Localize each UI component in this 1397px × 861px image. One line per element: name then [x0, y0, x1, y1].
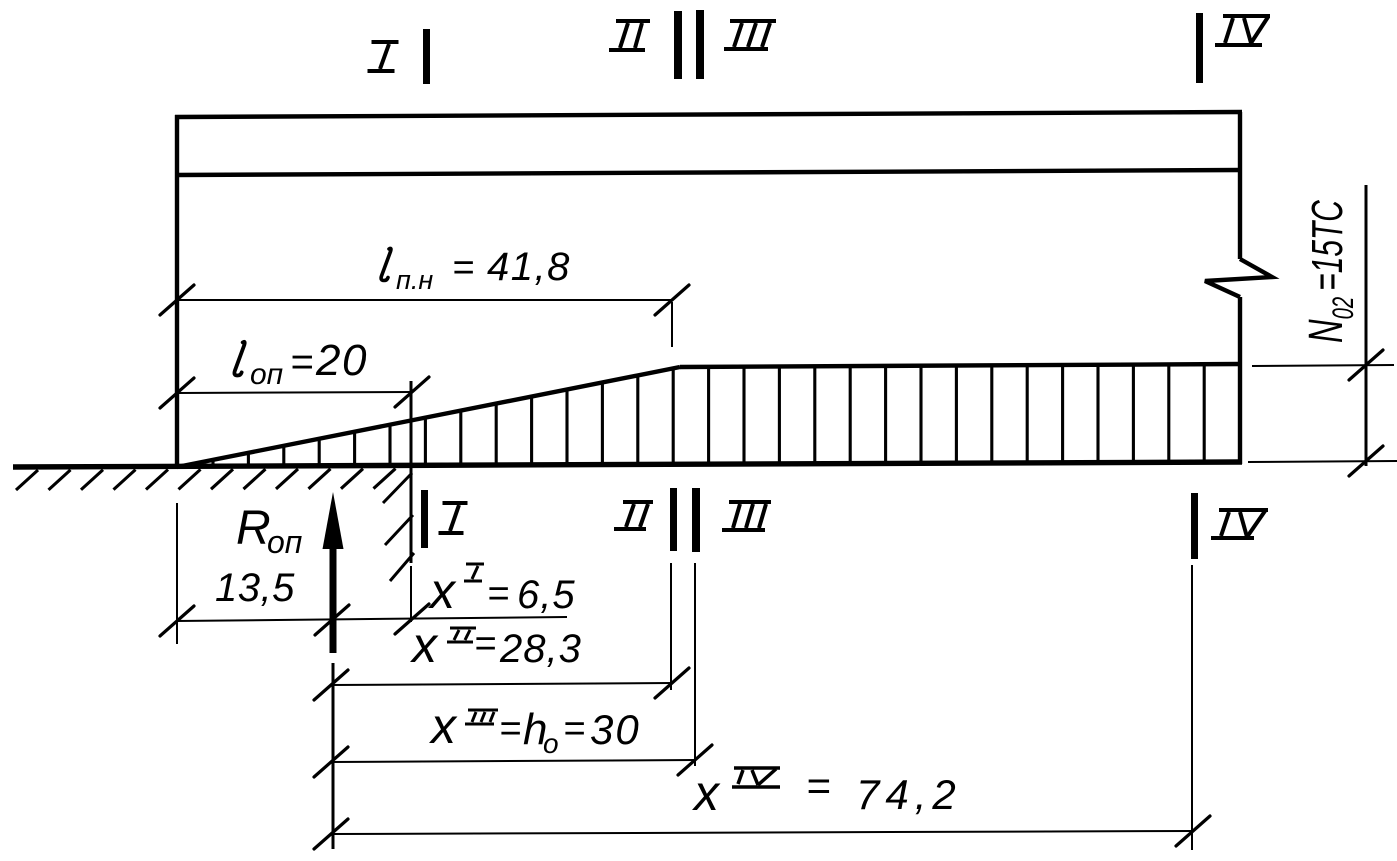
svg-text:74,2: 74,2 — [856, 771, 962, 818]
svg-text:30: 30 — [590, 706, 641, 753]
svg-text:28,3: 28,3 — [499, 627, 582, 671]
svg-text:=: = — [487, 573, 509, 615]
svg-text:N02 =15ТС: N02 =15ТС — [1299, 199, 1360, 343]
svg-text:=: = — [290, 340, 313, 384]
svg-text:=: = — [499, 708, 521, 750]
svg-text:x: x — [410, 617, 439, 673]
svg-text:о: о — [543, 728, 559, 759]
svg-text:x: x — [692, 765, 721, 821]
svg-text:13,5: 13,5 — [215, 566, 295, 610]
svg-text:41,8: 41,8 — [487, 245, 571, 289]
svg-text:оп: оп — [267, 524, 302, 560]
svg-text:=: = — [563, 708, 585, 750]
svg-text:=: = — [474, 623, 496, 665]
svg-text:оп: оп — [250, 358, 283, 391]
svg-text:6,5: 6,5 — [517, 573, 576, 617]
svg-text:=: = — [452, 247, 474, 289]
svg-text:x: x — [428, 563, 457, 619]
svg-text:=: = — [806, 762, 831, 809]
svg-text:20: 20 — [315, 336, 368, 385]
svg-text:R: R — [236, 502, 271, 555]
svg-text:x: x — [429, 698, 458, 754]
svg-text:п.н: п.н — [396, 265, 433, 295]
